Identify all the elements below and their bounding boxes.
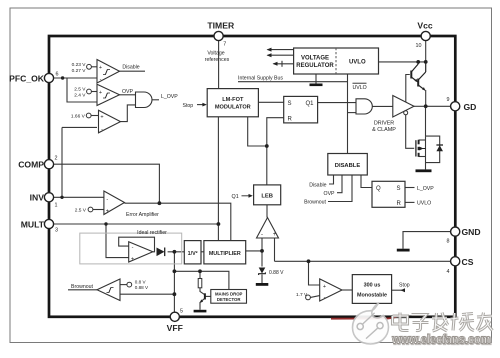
svg-text:0.88 V: 0.88 V bbox=[135, 285, 149, 290]
wire brownout plus ref bbox=[120, 284, 127, 286]
wire emitter rail down to GD node bbox=[425, 90, 427, 106]
LEB block bbox=[254, 185, 281, 205]
svg-text:-: - bbox=[261, 232, 263, 238]
wire clamp circle to MOSFET gate bbox=[406, 115, 415, 149]
error amplifier bbox=[104, 191, 125, 215]
mains drop BJT bbox=[204, 293, 206, 299]
svg-text:MAINS DROP: MAINS DROP bbox=[215, 291, 243, 296]
svg-text:+: + bbox=[99, 90, 102, 96]
transistor Q2 NPN bbox=[418, 62, 426, 90]
svg-text:1/V²: 1/V² bbox=[188, 251, 198, 257]
svg-text:300 us: 300 us bbox=[364, 283, 381, 289]
wire comp2 ref bbox=[92, 91, 98, 93]
MOSFET M1 bbox=[416, 140, 426, 157]
svg-text:S: S bbox=[397, 186, 401, 192]
svg-text:4: 4 bbox=[447, 269, 450, 275]
wire comp3 minus branch bbox=[62, 126, 97, 128]
svg-text:MULT: MULT bbox=[21, 219, 45, 229]
wire MULT pin to modulator line bbox=[53, 223, 218, 225]
svg-text:DRIVER: DRIVER bbox=[374, 121, 394, 127]
svg-text:+: + bbox=[106, 208, 109, 214]
wire CS comparator minus riser bbox=[261, 238, 263, 267]
svg-text:Vcc: Vcc bbox=[417, 21, 433, 31]
svg-text:Brownout: Brownout bbox=[304, 200, 326, 206]
svg-text:Monostable: Monostable bbox=[357, 293, 387, 299]
wire comp3 ref bbox=[91, 115, 98, 117]
svg-text:Q1: Q1 bbox=[232, 194, 239, 200]
DISABLE block bbox=[328, 154, 368, 176]
svg-text:+: + bbox=[131, 256, 134, 262]
wire comp2 minus branch bbox=[67, 78, 97, 102]
wire GND pin to ground bbox=[403, 232, 451, 249]
wire MOSFET drain branch bbox=[419, 139, 426, 141]
wire zener to ground bbox=[261, 275, 263, 284]
svg-text:Error Amplifier: Error Amplifier bbox=[126, 212, 159, 218]
wire comparator to monostable bbox=[342, 289, 352, 291]
svg-text:2: 2 bbox=[55, 156, 58, 162]
wire DISABLE box bottom stub Disable bbox=[329, 175, 334, 184]
wire UVLO down to DISABLE bbox=[347, 74, 349, 154]
svg-text:Voltage: Voltage bbox=[207, 51, 224, 57]
wire UVLO tap to AND2 bbox=[348, 112, 357, 114]
svg-text:GND: GND bbox=[462, 227, 481, 237]
ideal rectifier enclosure bbox=[80, 233, 182, 264]
wire regulator ground bbox=[315, 74, 317, 84]
clamp circle bbox=[404, 111, 408, 115]
pin TIMER 7 bbox=[214, 31, 223, 40]
wire modulator S to flip-flop bbox=[258, 101, 283, 103]
svg-text:6: 6 bbox=[56, 72, 59, 78]
svg-text:-: - bbox=[106, 196, 108, 202]
svg-text:UVLO: UVLO bbox=[353, 85, 367, 91]
rectifier diode bbox=[157, 248, 165, 257]
wire brownout output bbox=[68, 289, 97, 291]
wire 1/V2 to multiplier bbox=[201, 251, 204, 253]
svg-text:1.7 V: 1.7 V bbox=[296, 292, 308, 298]
wire AND2 output to driver bbox=[372, 105, 393, 107]
comparator reference labels bbox=[87, 64, 92, 69]
ground under BJT bbox=[194, 310, 207, 313]
svg-text:COMP: COMP bbox=[18, 160, 44, 170]
comparator U3 1.66V bbox=[99, 110, 121, 133]
AND gate 2 bbox=[356, 99, 372, 114]
monostable block bbox=[352, 275, 391, 304]
multiplier block bbox=[204, 241, 246, 264]
flip-flop FF1 S/R/Q1 bbox=[284, 96, 318, 123]
子 bbox=[412, 315, 429, 331]
svg-text:9: 9 bbox=[447, 97, 450, 103]
rectifier op-amp bbox=[129, 242, 153, 262]
ground near GND pin bbox=[397, 249, 410, 252]
wire flip-flop2 S output bbox=[405, 187, 415, 189]
wire DISABLE box bottom stub Brownout bbox=[328, 175, 352, 202]
wire op-amp feedback loop bbox=[119, 237, 155, 252]
svg-text:MULTIPLIER: MULTIPLIER bbox=[209, 251, 241, 257]
wire flip-flop2 R output bbox=[405, 201, 415, 203]
wire flip-flop R to LEB bbox=[267, 118, 284, 185]
svg-text:www.elecfans.com: www.elecfans.com bbox=[391, 331, 490, 346]
wire body diode branch bbox=[426, 136, 440, 163]
svg-text:R: R bbox=[397, 201, 402, 207]
发 bbox=[432, 313, 448, 332]
svg-text:references: references bbox=[205, 57, 230, 63]
MAINS DROP DETECTOR block bbox=[211, 290, 247, 304]
pin PFC_OK 6 bbox=[44, 73, 53, 82]
svg-text:+: + bbox=[99, 65, 102, 71]
svg-text:10: 10 bbox=[416, 43, 422, 49]
wire VFF riser bbox=[173, 252, 175, 313]
wire MOSFET vertical to ground bbox=[425, 136, 427, 169]
wire resistor branch bbox=[199, 271, 201, 278]
svg-text:0.8 V: 0.8 V bbox=[135, 280, 147, 285]
svg-text:7: 7 bbox=[223, 42, 226, 48]
wire brownout minus to VFF bbox=[120, 293, 174, 295]
svg-text:L_OVP: L_OVP bbox=[161, 94, 178, 100]
svg-text:Stop: Stop bbox=[183, 103, 194, 109]
svg-text:L_OVP: L_OVP bbox=[417, 186, 434, 192]
svg-text:-: - bbox=[100, 77, 102, 83]
svg-text:PFC_OK: PFC_OK bbox=[9, 74, 45, 84]
wire driver apex to GD node bbox=[414, 105, 426, 107]
电 bbox=[393, 313, 409, 331]
svg-text:Brownout: Brownout bbox=[71, 284, 93, 290]
svg-text:S: S bbox=[288, 101, 292, 107]
wire GD node to pin bbox=[426, 105, 451, 107]
svg-text:3: 3 bbox=[55, 228, 58, 234]
烧 bbox=[451, 313, 475, 331]
svg-text:DETECTOR: DETECTOR bbox=[217, 297, 241, 302]
svg-text:2.5 V: 2.5 V bbox=[74, 87, 86, 93]
pin Vcc 10 bbox=[421, 31, 430, 40]
ground under MOSFET bbox=[416, 169, 432, 172]
wire modulator down to multiplier bbox=[217, 117, 219, 241]
logo inner circles bbox=[357, 313, 383, 339]
watermark red line bbox=[331, 315, 401, 319]
wire modulator second output to R line bbox=[248, 117, 267, 146]
pin GD 9 bbox=[451, 102, 460, 111]
transistor Q1 NPN bbox=[411, 62, 418, 82]
wire PFC_OK to comparator1 minus bbox=[53, 77, 97, 79]
svg-text:+: + bbox=[100, 115, 103, 121]
svg-text:UVLO: UVLO bbox=[349, 60, 366, 66]
comparator U2 2.5/2.4V OVP bbox=[97, 84, 120, 105]
wire CS comparator plus riser bbox=[274, 238, 276, 261]
wire multiplier output to CS comparator minus bbox=[246, 250, 262, 252]
pin GND 8 bbox=[451, 227, 460, 236]
1.7V comparator bbox=[320, 279, 342, 301]
svg-text:Disable: Disable bbox=[122, 65, 139, 71]
svg-text:OVP: OVP bbox=[324, 191, 335, 197]
pin VFF 5 bbox=[170, 312, 179, 321]
wire Vcc rail bbox=[379, 61, 426, 63]
svg-text:REGULATOR: REGULATOR bbox=[296, 63, 334, 69]
wire BJT emitter to ground bbox=[200, 298, 205, 310]
hysteresis glyphs bbox=[103, 70, 114, 293]
wire MULT tap down to ideal rectifier bbox=[106, 224, 129, 258]
svg-text:Disable: Disable bbox=[309, 182, 326, 188]
zener 0.88V bbox=[259, 268, 266, 274]
wire comp1 ref bbox=[92, 66, 98, 68]
wire Q1 to AND2 bbox=[318, 102, 356, 104]
voltage regulator + UVLO block bbox=[294, 48, 379, 74]
svg-text:0.23 V: 0.23 V bbox=[72, 62, 87, 68]
wire CS branch down to 1.7V comparator bbox=[309, 261, 320, 285]
pin COMP 2 bbox=[44, 160, 53, 169]
ground under zener bbox=[256, 283, 268, 286]
wire Vcc pin down bbox=[425, 40, 427, 62]
wire BJT base bbox=[205, 295, 211, 297]
svg-text:R: R bbox=[288, 116, 293, 122]
wire INV pin to error amp bbox=[53, 196, 104, 198]
wire internal supply bus bbox=[238, 81, 348, 83]
svg-text:UVLO: UVLO bbox=[417, 201, 431, 207]
svg-text:Q: Q bbox=[376, 186, 381, 192]
LM-FOT modulator block bbox=[207, 89, 258, 117]
svg-text:LM-FOT: LM-FOT bbox=[222, 97, 244, 103]
svg-text:VOLTAGE: VOLTAGE bbox=[301, 56, 329, 62]
svg-text:OVP: OVP bbox=[122, 89, 133, 95]
Stop output arrow bbox=[401, 288, 406, 292]
wire 1.7V ref bbox=[311, 296, 320, 298]
pin CS 4 bbox=[451, 257, 460, 266]
voltage references arrows heads bbox=[267, 48, 272, 52]
svg-text:1.66 V: 1.66 V bbox=[71, 114, 86, 120]
pin MULT 3 bbox=[44, 219, 53, 228]
svg-text:TIMER: TIMER bbox=[207, 21, 235, 31]
svg-text:Stop: Stop bbox=[399, 283, 410, 289]
svg-text:0.88 V: 0.88 V bbox=[269, 270, 284, 276]
wire DISABLE to flip-flop2 Q bbox=[361, 175, 372, 188]
svg-text:VFF: VFF bbox=[167, 323, 183, 333]
svg-text:-: - bbox=[132, 245, 134, 251]
wire COMP pin to error amp output bbox=[53, 164, 159, 203]
wire diode out to 1/V2 bbox=[168, 251, 185, 253]
CJK white emboss overlay bbox=[393, 313, 493, 332]
svg-text:Internal Supply Bus: Internal Supply Bus bbox=[238, 76, 283, 82]
wire monostable Stop output bbox=[392, 289, 402, 291]
svg-text:-: - bbox=[324, 295, 326, 301]
driver & clamp triangle bbox=[393, 96, 414, 118]
wire feedforward line bbox=[174, 271, 229, 289]
wire AND1 output L_OVP bbox=[152, 99, 159, 101]
wire DISABLE box bottom stub OVP bbox=[337, 175, 342, 193]
IC boundary bbox=[49, 36, 455, 317]
svg-text:LEB: LEB bbox=[261, 194, 273, 200]
CS comparator bbox=[257, 218, 279, 239]
AND gate L_OVP bbox=[136, 92, 152, 108]
watermark logo blob bbox=[353, 303, 389, 344]
svg-text:DISABLE: DISABLE bbox=[335, 163, 361, 169]
body diode D1 bbox=[436, 145, 443, 151]
wire comp3-minus down to INV node bbox=[61, 127, 63, 197]
pin INV 1 bbox=[44, 193, 53, 202]
svg-text:1: 1 bbox=[55, 203, 58, 209]
svg-text:2.4 V: 2.4 V bbox=[74, 92, 86, 98]
svg-text:2.5 V: 2.5 V bbox=[75, 208, 87, 214]
wire T1 base feed bbox=[406, 75, 410, 103]
wire TIMER pin down to modulator bbox=[218, 40, 220, 89]
svg-text:CS: CS bbox=[462, 257, 474, 267]
svg-text:GD: GD bbox=[464, 102, 477, 112]
mains drop resistor bbox=[198, 279, 202, 288]
wire error amp output to multiplier bbox=[125, 203, 231, 240]
ground under regulator bbox=[310, 84, 323, 87]
wire comp1 output Disable bbox=[120, 70, 146, 72]
svg-text:& CLAMP: & CLAMP bbox=[372, 127, 396, 133]
wire comp3 output up to AND bbox=[121, 105, 136, 122]
svg-text:+: + bbox=[273, 232, 277, 238]
svg-text:5: 5 bbox=[180, 309, 183, 315]
svg-text:Ideal rectifier: Ideal rectifier bbox=[137, 230, 167, 236]
watermark CJK glyph strokes (电子发烧友) bbox=[393, 313, 493, 332]
comparator U1 0.23/0.27V Disable bbox=[97, 60, 120, 84]
svg-text:MODULATOR: MODULATOR bbox=[215, 105, 251, 111]
svg-text:Q1: Q1 bbox=[306, 101, 315, 107]
wire Stop arrow into modulator bbox=[197, 104, 206, 106]
svg-text:INV: INV bbox=[30, 193, 45, 203]
wire LEB bottom to CS comparator bbox=[266, 205, 268, 218]
友 bbox=[477, 313, 493, 332]
wire CS pin line bbox=[275, 260, 452, 262]
svg-text:8: 8 bbox=[447, 239, 450, 245]
wire GD node down to MOSFET drain bbox=[425, 106, 427, 136]
svg-text:0.27 V: 0.27 V bbox=[72, 68, 87, 74]
svg-text:-: - bbox=[101, 127, 103, 133]
brownout comparator bbox=[97, 279, 120, 301]
wire 2.5V ref to error amp bbox=[93, 209, 104, 211]
wire voltage reference arrows bbox=[268, 49, 294, 51]
svg-text:+: + bbox=[323, 284, 326, 290]
svg-text:-: - bbox=[100, 101, 102, 107]
flip-flop FF2 Q/S/R bbox=[372, 181, 405, 207]
wire comp2 output OVP to AND bbox=[120, 94, 136, 96]
wire MOSFET source branch bbox=[419, 156, 426, 158]
1/V2 block bbox=[184, 241, 201, 264]
wire resistor to BJT collector bbox=[200, 288, 205, 295]
